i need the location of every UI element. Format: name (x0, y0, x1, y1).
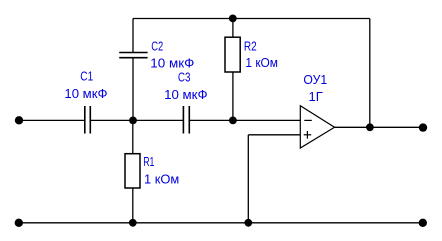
op-amp U1 triangle (300, 106, 334, 148)
terminal bottom left (15, 219, 23, 227)
svg-text:1Г: 1Г (309, 90, 324, 104)
resistor R2 (225, 37, 240, 72)
svg-text:C2: C2 (151, 40, 163, 54)
wire R2 top (232, 19, 234, 38)
wire R1 top (132, 120, 134, 153)
svg-text:1 кОм: 1 кОм (245, 56, 278, 70)
svg-text:ОУ1: ОУ1 (303, 73, 327, 87)
op-amp non-inverting pin mark (304, 131, 312, 139)
wire R1 bottom (132, 188, 134, 223)
wire top feedback horizontal (133, 18, 370, 20)
terminal bottom right (419, 219, 427, 227)
wire feedback vertical right (369, 19, 371, 128)
terminal input left (15, 116, 23, 124)
wire input left segment (19, 119, 85, 121)
junction node R1 bottom rail (129, 219, 137, 227)
junction node top R2 (229, 15, 237, 23)
junction node C1-C2-C3-R1 (129, 117, 137, 125)
wire output (335, 126, 424, 128)
capacitor C2 (119, 53, 147, 58)
wire C3 to op-amp inverting input (189, 119, 300, 121)
wire bottom rail (19, 222, 423, 224)
wire non-inverting horizontal (248, 134, 300, 136)
svg-text:1 кОм: 1 кОм (144, 173, 179, 187)
svg-text:10 мкФ: 10 мкФ (150, 57, 194, 71)
junction node output feedback (366, 123, 374, 131)
wire C2 top vertical (132, 19, 134, 53)
wire C2 bottom vertical (132, 58, 134, 121)
capacitor C1 (85, 106, 91, 134)
wire R2 bottom (232, 72, 234, 120)
svg-text:C1: C1 (80, 69, 93, 83)
svg-text:R1: R1 (143, 155, 154, 169)
svg-text:C3: C3 (178, 71, 191, 85)
svg-text:10 мкФ: 10 мкФ (164, 88, 208, 102)
resistor R1 (125, 154, 140, 188)
svg-text:R2: R2 (244, 39, 257, 53)
capacitor C3 (183, 106, 189, 134)
terminal output right (419, 123, 427, 131)
wire mid segment C1 to C3 (90, 119, 183, 121)
op-amp inverting pin mark (304, 119, 312, 121)
junction node non-inverting rail (244, 219, 252, 227)
junction node R2 bottom on input wire (229, 117, 237, 125)
wire non-inverting vertical (247, 135, 249, 223)
svg-text:10 мкФ: 10 мкФ (64, 87, 107, 101)
